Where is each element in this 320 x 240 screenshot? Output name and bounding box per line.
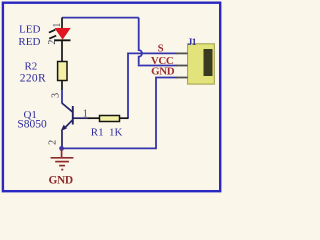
emitter diagonal: [64, 120, 73, 130]
collector diagonal: [62, 103, 73, 112]
J1 pin 3: [176, 77, 188, 79]
wire: VCC top run from LED anode: [62, 17, 139, 19]
R1 right lead: [120, 117, 129, 119]
svg-text:R1: R1: [91, 127, 104, 139]
svg-text:2: 2: [47, 140, 58, 145]
resistor R2 body: [58, 62, 67, 81]
emitter arrowhead: [61, 125, 67, 131]
ground symbol: [51, 148, 74, 169]
LED D? triangle: [55, 28, 70, 39]
svg-text:2: 2: [47, 40, 58, 45]
svg-text:S: S: [158, 43, 164, 55]
sheet background: [0, 0, 224, 195]
R1 left lead: [88, 117, 100, 119]
svg-text:1: 1: [83, 109, 88, 120]
svg-text:S8050: S8050: [17, 118, 47, 130]
LED cathode bar: [54, 39, 71, 41]
sheet border: [3, 3, 220, 192]
base bar: [72, 106, 74, 125]
junction node (emitter / gnd rail): [59, 146, 64, 151]
R2 bottom lead: [61, 81, 63, 91]
emitter pin vertical: [61, 130, 63, 146]
svg-text:1K: 1K: [109, 127, 123, 139]
svg-text:220R: 220R: [20, 73, 46, 85]
wire: GND from connector pin down to ground rail: [62, 78, 177, 149]
svg-text:1: 1: [52, 23, 63, 28]
LED pin 1 (anode lead): [61, 18, 63, 29]
LED emission slashes: [49, 30, 55, 33]
wire: VCC row horizontal into connector pin: [138, 65, 177, 67]
transistor Q1 S8050: [62, 103, 89, 147]
svg-text:GND: GND: [151, 65, 175, 77]
wire: S net from R1 right end up and across to connector: [128, 53, 177, 118]
wire: R2 to Q1 collector: [61, 90, 63, 104]
svg-text:3: 3: [51, 93, 62, 98]
base pin: [73, 117, 89, 119]
wire/lead: LED cathode to R2: [61, 40, 63, 61]
J1 pin 2: [176, 65, 188, 67]
connector J1 body: [188, 44, 215, 84]
svg-text:J1: J1: [188, 38, 197, 48]
wire: vertical drop with hop over S line, to VCC pin row: [139, 18, 142, 65]
svg-text:RED: RED: [18, 36, 40, 48]
svg-text:LED: LED: [19, 24, 40, 36]
svg-text:R2: R2: [24, 60, 37, 72]
J1 pin 1: [176, 52, 188, 54]
svg-text:GND: GND: [48, 174, 72, 186]
resistor R1 body: [100, 116, 120, 122]
connector key bar: [204, 49, 213, 76]
